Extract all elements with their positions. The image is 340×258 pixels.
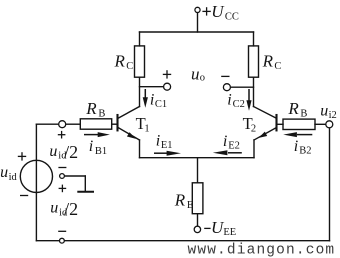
svg-text:i: i <box>89 138 93 155</box>
svg-text:C1: C1 <box>155 99 167 110</box>
svg-text:/2: /2 <box>64 142 78 162</box>
svg-text:2: 2 <box>251 123 256 134</box>
svg-text:u: u <box>320 102 328 119</box>
svg-text:o: o <box>200 73 205 84</box>
svg-text:u: u <box>50 200 58 217</box>
svg-text:R: R <box>114 52 126 71</box>
svg-text:i: i <box>223 133 227 150</box>
svg-text:B1: B1 <box>95 146 107 157</box>
svg-text:www.diangon.com: www.diangon.com <box>188 243 336 258</box>
svg-text:i: i <box>294 138 298 155</box>
svg-text:B: B <box>98 108 105 119</box>
svg-text:u: u <box>49 143 57 160</box>
svg-text:i2: i2 <box>329 110 337 121</box>
svg-text:i: i <box>150 92 154 109</box>
svg-text:R: R <box>85 99 97 118</box>
svg-text:E: E <box>187 200 193 211</box>
svg-text:E2: E2 <box>228 141 240 152</box>
svg-text:R: R <box>262 52 274 71</box>
svg-text:/2: /2 <box>64 199 78 219</box>
svg-text:EE: EE <box>223 227 236 238</box>
svg-text:U: U <box>211 2 225 21</box>
svg-text:u: u <box>191 65 200 84</box>
svg-text:u: u <box>0 164 8 181</box>
svg-text:CC: CC <box>225 11 239 22</box>
svg-text:R: R <box>287 99 299 118</box>
svg-text:B: B <box>300 108 307 119</box>
svg-text:C: C <box>126 61 133 72</box>
svg-text:i: i <box>227 91 231 108</box>
svg-text:E1: E1 <box>161 140 173 151</box>
svg-text:B2: B2 <box>299 146 311 157</box>
svg-text:C: C <box>274 61 281 72</box>
svg-text:R: R <box>174 191 186 210</box>
svg-text:id: id <box>9 172 18 183</box>
svg-text:C2: C2 <box>233 99 245 110</box>
svg-text:i: i <box>156 133 160 150</box>
svg-text:1: 1 <box>144 124 149 135</box>
